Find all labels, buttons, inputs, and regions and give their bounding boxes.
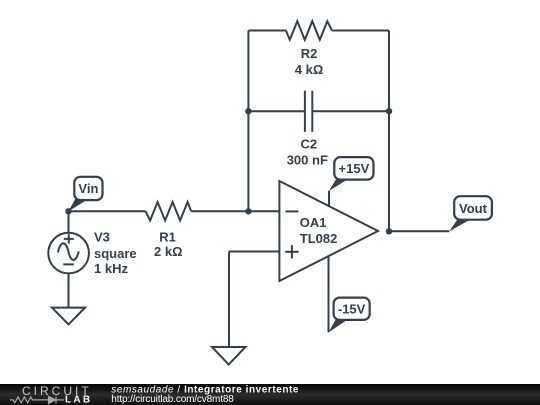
node label Vin: [68, 177, 102, 212]
wire: Vin node to R1 left lead: [69, 210, 146, 212]
svg-text:1 kHz: 1 kHz: [94, 261, 128, 276]
junction dot at output node: [386, 228, 392, 234]
resistor R2: [286, 21, 332, 40]
wire: feedback right vertical: [388, 31, 390, 232]
wire: non-inverting input to ground vertical: [228, 252, 230, 348]
wire: op-amp output to Vout: [389, 230, 449, 232]
capacitor C2: [305, 91, 312, 132]
svg-text:R2: R2: [301, 46, 318, 61]
svg-text:Vin: Vin: [78, 181, 98, 196]
supply label -15V: [329, 298, 370, 333]
footer logo resistor-diode squiggle: [10, 396, 64, 403]
junction dot feedback right / capacitor: [386, 108, 392, 114]
svg-text:R1: R1: [159, 230, 176, 245]
label C2 value text: [287, 137, 328, 168]
svg-text:http://circuitlab.com/cv8mt88: http://circuitlab.com/cv8mt88: [111, 394, 234, 405]
ground symbol below V3: [52, 308, 85, 325]
svg-text:300 nF: 300 nF: [287, 153, 328, 168]
supply label +15V: [329, 157, 374, 191]
svg-text:-15V: -15V: [338, 301, 366, 316]
wire: op-amp bottom to -15V supply: [328, 255, 330, 332]
junction dot at Vin node: [65, 208, 71, 214]
wire: feedback left vertical: [247, 31, 249, 212]
resistor R1: [146, 202, 192, 221]
footer black bar: [0, 384, 540, 405]
label OA1 TL082 text: [300, 215, 338, 246]
wire: non-inverting input horizontal: [229, 251, 279, 253]
op-amp non-inverting input plus symbol: [285, 245, 298, 258]
wire: capacitor branch left: [248, 110, 305, 112]
label V3 value text: [94, 230, 137, 276]
voltage source V3 sine glyph: [58, 243, 79, 260]
wire: Vin node to V3 top: [68, 211, 70, 233]
op-amp OA1 triangle: [279, 181, 378, 281]
svg-text:OA1: OA1: [300, 215, 327, 230]
label R2 value text: [295, 46, 324, 77]
ground symbol for non-inverting input: [212, 347, 245, 365]
voltage source V3 circle: [48, 233, 89, 274]
svg-text:+15V: +15V: [339, 161, 370, 176]
svg-text:C2: C2: [300, 137, 317, 152]
wire: V3 bottom to ground: [68, 273, 70, 307]
wire: capacitor branch right: [312, 110, 389, 112]
wire: top wire to R2 left: [248, 30, 286, 32]
junction dot at inverting input node: [245, 208, 251, 214]
svg-text:2 kΩ: 2 kΩ: [154, 244, 183, 259]
node label Vout: [449, 196, 492, 231]
svg-text:Vout: Vout: [459, 201, 488, 216]
label R1 value text: [154, 230, 183, 259]
voltage source V3 plus sign: [64, 234, 74, 243]
wire: R2 right to feedback right vertical: [332, 30, 389, 32]
wire: +15V supply to op-amp top: [328, 191, 330, 207]
svg-text:TL082: TL082: [300, 231, 338, 246]
wire: R1 right lead to op-amp inverting input: [191, 210, 279, 212]
svg-text:square: square: [94, 246, 137, 261]
junction dot feedback left / capacitor: [245, 108, 251, 114]
svg-text:4 kΩ: 4 kΩ: [295, 62, 324, 77]
op-amp inverting input minus symbol: [286, 210, 299, 212]
voltage source V3 minus sign: [63, 263, 74, 265]
svg-text:LAB: LAB: [65, 394, 92, 405]
svg-text:V3: V3: [94, 230, 110, 245]
